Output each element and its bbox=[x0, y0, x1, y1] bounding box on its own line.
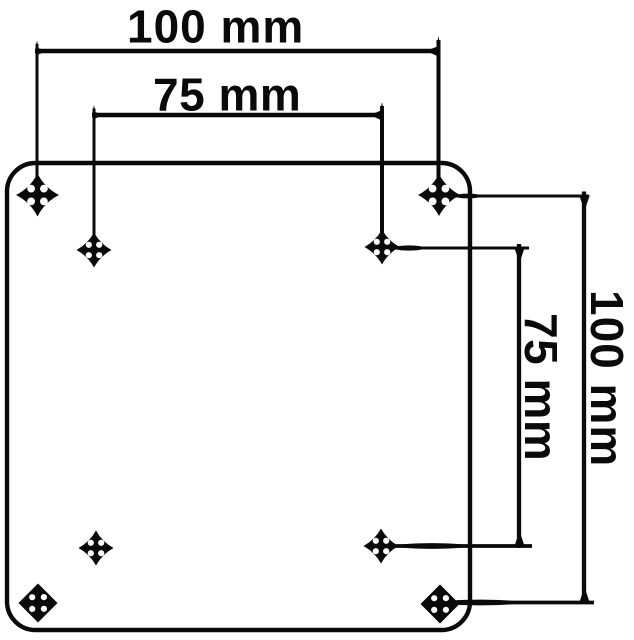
extension tick tip top (75 mm right) bbox=[514, 247, 527, 250]
svg-text:75 mm: 75 mm bbox=[153, 69, 301, 121]
extension line top (100 mm right) bbox=[440, 195, 589, 198]
screw hole bottom-right inner (star) bbox=[364, 529, 399, 564]
screw hole bottom-left outer (diamond) bbox=[19, 584, 58, 623]
extension taper bottom (75 mm right) bbox=[396, 543, 468, 549]
extension line bottom (100 mm right) bbox=[440, 601, 594, 605]
screw hole top-left inner (star) bbox=[77, 233, 112, 268]
extension line left (75 mm top) bbox=[93, 109, 96, 251]
extension tick tip top (100 mm right) bbox=[579, 195, 592, 198]
screw hole top-right inner (star) bbox=[365, 230, 400, 265]
extension line left (100 mm top) bbox=[36, 44, 39, 194]
extension tick tip left (75 mm top) bbox=[93, 105, 96, 112]
extension line right (100 mm top) bbox=[437, 40, 441, 195]
extension tick tip right (100 mm top) bbox=[437, 36, 441, 46]
dimension line 75 mm top bbox=[92, 110, 384, 121]
dimension line 100 mm top bbox=[35, 46, 440, 57]
extension taper bottom (100 mm right) bbox=[440, 600, 520, 606]
extension tick tip right (75 mm top) bbox=[380, 102, 384, 111]
screw hole bottom-right outer (diamond) bbox=[421, 585, 460, 624]
extension line top (75 mm right) bbox=[382, 247, 529, 250]
svg-text:75 mm: 75 mm bbox=[515, 313, 567, 461]
dimension line 100 mm right bbox=[580, 192, 590, 605]
svg-text:100 mm: 100 mm bbox=[127, 1, 304, 53]
extension tick tip left (100 mm top) bbox=[36, 41, 39, 48]
plate outline bbox=[7, 163, 470, 630]
extension line bottom (75 mm right) bbox=[381, 544, 532, 548]
extension line right (75 mm top) bbox=[380, 106, 384, 247]
screw hole top-left outer (star) bbox=[16, 174, 59, 217]
screw hole bottom-left inner (star) bbox=[79, 531, 114, 566]
dimension line 75 mm right bbox=[515, 244, 525, 548]
svg-text:100 mm: 100 mm bbox=[581, 290, 633, 467]
screw hole top-right outer (star) bbox=[418, 174, 460, 216]
